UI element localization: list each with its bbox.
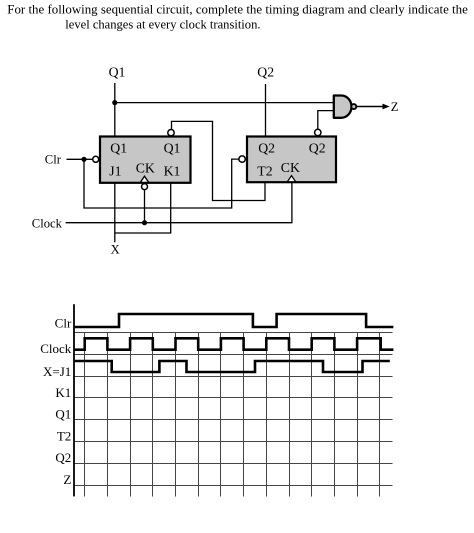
- nand gate G1: [334, 96, 352, 118]
- U2 Q2bar bubble: [315, 129, 321, 135]
- waveform X=J1: [74, 361, 390, 372]
- svg-text:Clock: Clock: [40, 341, 72, 356]
- svg-text:Clr: Clr: [55, 316, 72, 331]
- wire Clock line to FF2 CK: [66, 182, 292, 223]
- wire Clr lead: [67, 158, 93, 160]
- svg-text:K1: K1: [164, 164, 181, 179]
- timing diagram grid verticals: [85, 333, 380, 497]
- wire X branch to K1: [115, 183, 171, 233]
- U1 Q1bar bubble: [168, 130, 174, 136]
- svg-text:Z: Z: [391, 100, 399, 114]
- svg-text:X=J1: X=J1: [43, 364, 71, 379]
- wire Q1 vertical from label to FF1 top: [114, 83, 116, 137]
- U2 clock edge triangle: [287, 176, 295, 182]
- node junction dot on Q1: [112, 100, 117, 105]
- svg-text:CK: CK: [281, 160, 300, 175]
- node junction dot on Clock: [142, 220, 147, 225]
- timing diagram grid horizontals: [74, 333, 393, 486]
- wire Clr to FF2 clear route: [84, 159, 239, 208]
- U1 clear bubble: [93, 156, 99, 162]
- svg-text:For the following sequential c: For the following sequential circuit, co…: [7, 3, 468, 17]
- wire Q2bar to NAND bottom input: [318, 111, 334, 130]
- waveform Clr: [74, 314, 393, 327]
- svg-text:CK: CK: [136, 160, 155, 175]
- svg-text:Z: Z: [63, 472, 71, 487]
- flip-flop U2 (T) box: [247, 137, 336, 183]
- U1 clock edge triangle: [140, 176, 148, 182]
- svg-text:Q1: Q1: [55, 407, 71, 422]
- wire X to J1: [114, 183, 116, 242]
- svg-text:X: X: [111, 242, 120, 256]
- svg-text:K1: K1: [55, 385, 71, 400]
- wire CK1 bubble to clock line: [144, 190, 146, 223]
- waveform Clock: [74, 338, 393, 349]
- svg-text:Q1: Q1: [164, 140, 181, 155]
- wire Z output with arrow: [357, 106, 385, 108]
- svg-text:Q2: Q2: [258, 140, 275, 155]
- svg-text:Q1: Q1: [109, 64, 126, 79]
- svg-text:T2: T2: [57, 428, 71, 443]
- wire Q1bar to T2 route: [172, 121, 266, 200]
- arrowhead Z: [383, 104, 390, 110]
- wire Q1 to NAND top input: [115, 102, 334, 104]
- svg-text:level changes at every clock t: level changes at every clock transition.: [65, 18, 260, 32]
- wire Q2 vertical from label to FF2 top: [265, 84, 267, 137]
- timing axis: [73, 304, 75, 496]
- svg-text:Q2: Q2: [309, 140, 326, 155]
- svg-text:Q1: Q1: [110, 140, 127, 155]
- svg-text:Clock: Clock: [32, 217, 63, 231]
- nand G1 output bubble: [351, 104, 356, 109]
- svg-text:Q2: Q2: [257, 64, 274, 79]
- node junction dot on Clr: [81, 157, 86, 162]
- U1 clock bubble: [142, 184, 148, 190]
- svg-text:J1: J1: [109, 164, 121, 179]
- svg-text:T2: T2: [257, 164, 272, 179]
- svg-text:Clr: Clr: [45, 153, 62, 167]
- flip-flop U1 (JK) box: [100, 137, 191, 183]
- U2 clear bubble: [239, 156, 245, 162]
- svg-text:Q2: Q2: [55, 450, 71, 465]
